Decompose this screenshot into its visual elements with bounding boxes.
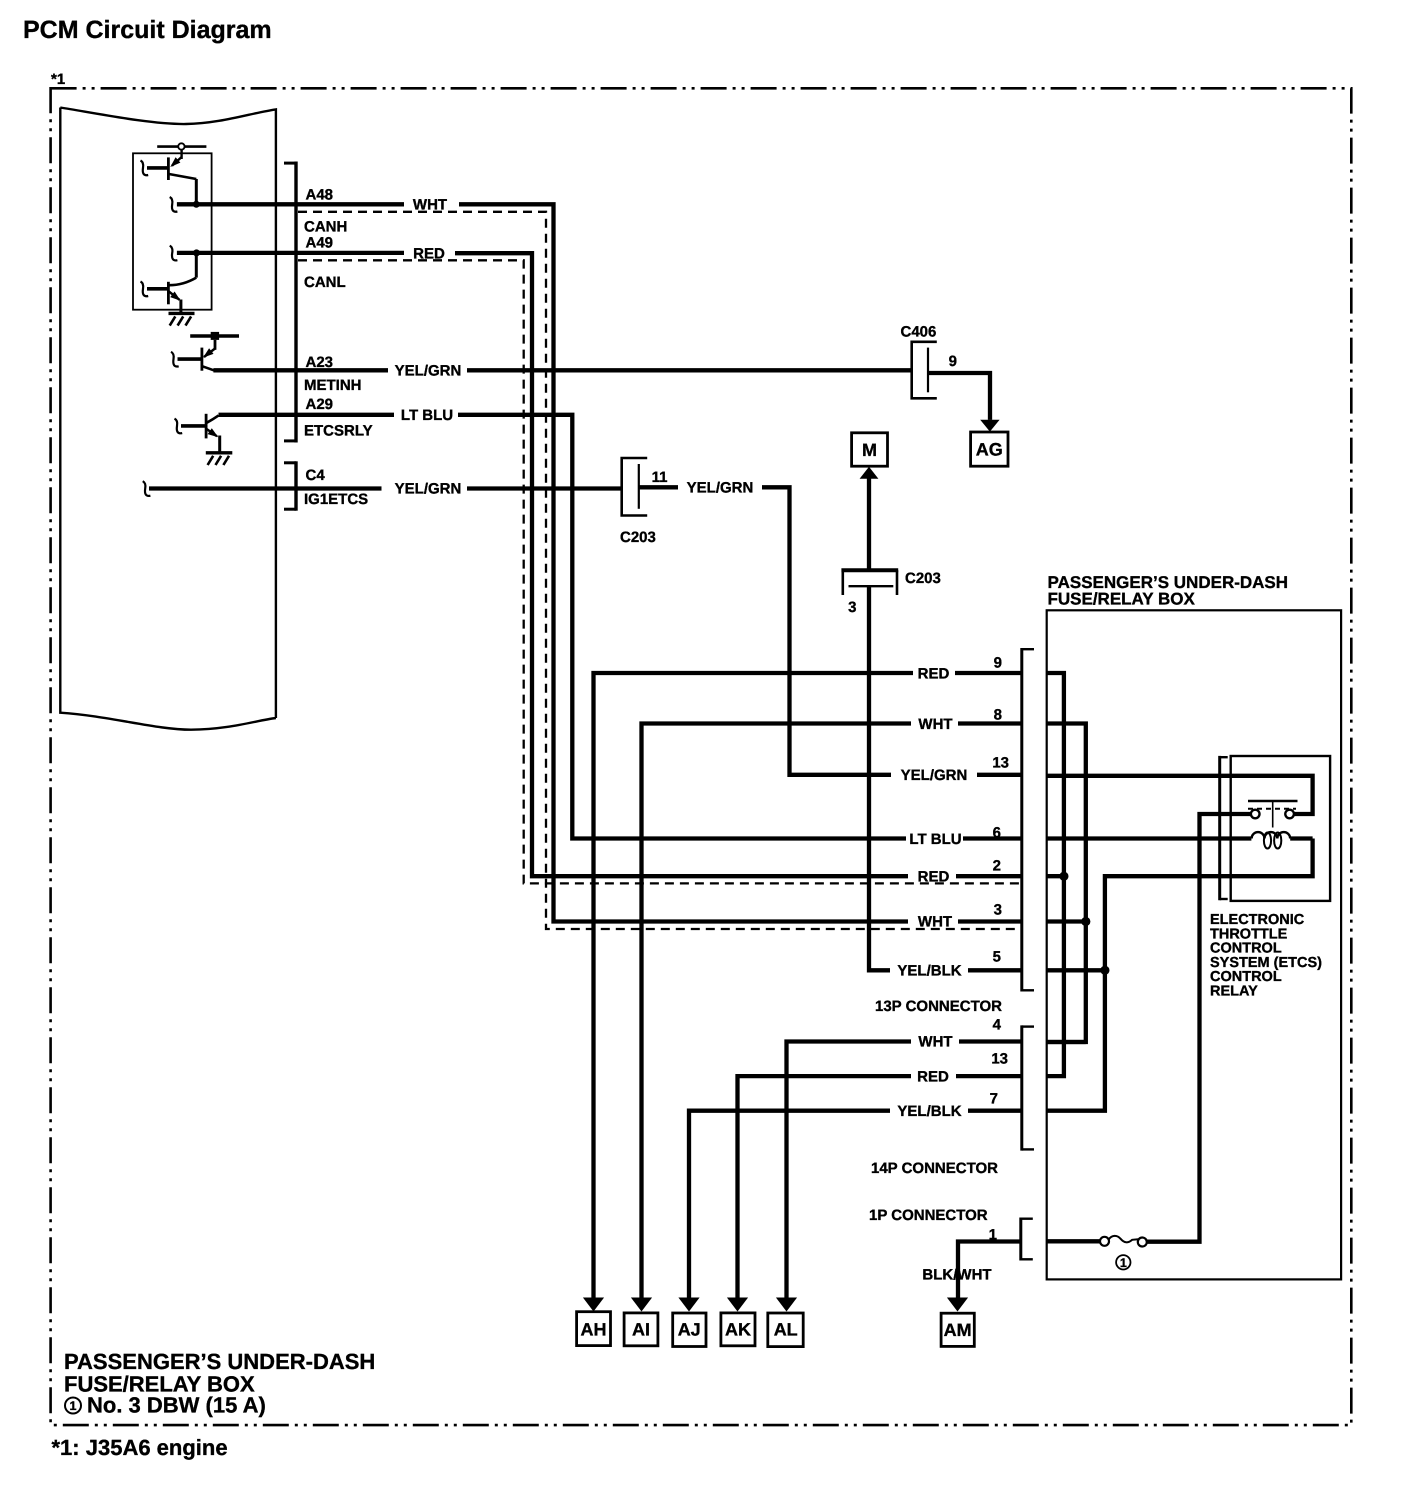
relay link bar to coil: [1272, 801, 1274, 828]
wire row6 LT BLU right segment: [963, 836, 1022, 840]
fusebox row2 stub: [1047, 874, 1064, 878]
svg-text:6: 6: [993, 825, 1001, 842]
wire row5 right segment: [968, 968, 1022, 972]
hook at A49 wire start: [170, 246, 178, 261]
wire C4 YEL/GRN segment a: [149, 486, 382, 490]
svg-text:RELAY: RELAY: [1210, 984, 1258, 1000]
junction dot row2/vert1: [1059, 872, 1068, 881]
circled 1 fuse id: [1116, 1255, 1130, 1270]
svg-text:AH: AH: [581, 1320, 607, 1340]
wire M vertical upper: [867, 479, 871, 569]
svg-text:METINH: METINH: [304, 377, 362, 394]
junction dot row3/vert2: [1081, 917, 1090, 926]
motor box M: [852, 433, 888, 466]
fusebox row5 stub: [1047, 968, 1105, 972]
fusebox 14P row4 stub: [1047, 1040, 1086, 1044]
svg-text:3: 3: [848, 599, 856, 616]
svg-text:ETCSRLY: ETCSRLY: [304, 423, 373, 440]
svg-text:CANH: CANH: [304, 219, 347, 236]
wire A29 LT BLU segment a: [219, 413, 395, 417]
wire YEL/GRN from C203-11 down to row 13: [762, 487, 891, 775]
svg-text:YEL/GRN: YEL/GRN: [395, 481, 462, 498]
wire 14P row4 WHT with drop to AL: [787, 1042, 912, 1298]
wire row13 right segment: [977, 773, 1022, 777]
connector C203 pin 11 symbol: [622, 458, 648, 516]
svg-text:1: 1: [70, 1399, 77, 1413]
fusebox row13 wire into relay to switch contact: [1047, 776, 1313, 814]
svg-text:WHT: WHT: [918, 1034, 952, 1051]
svg-text:YEL/GRN: YEL/GRN: [901, 767, 968, 784]
arrow into AH: [583, 1298, 604, 1312]
svg-text:C203: C203: [905, 570, 941, 587]
terminal box AI: [624, 1313, 658, 1346]
ground under Q5: [206, 453, 233, 465]
twisted pair dash for RED: [298, 260, 1022, 883]
wire 1P pin1 to BLK/WHT drop: [958, 1242, 1021, 1298]
svg-text:AG: AG: [976, 440, 1003, 460]
relay coil right lead: [1290, 836, 1312, 840]
wire row3 WHT right segment: [958, 919, 1022, 923]
relay coil return / vert3 to 14P-7: [1047, 839, 1313, 1111]
svg-text:13: 13: [991, 1051, 1008, 1068]
node junction on A48 wire: [193, 201, 200, 208]
svg-text:13: 13: [992, 755, 1009, 772]
svg-text:LT BLU: LT BLU: [401, 407, 453, 424]
connector bracket A48-A29 group: [284, 162, 296, 443]
svg-text:A48: A48: [306, 187, 334, 204]
svg-text:No. 3 DBW (15 A): No. 3 DBW (15 A): [87, 1393, 266, 1418]
fusebox wire row9 to 14P-13 via vertical: [1047, 673, 1064, 1076]
svg-text:YEL/BLK: YEL/BLK: [897, 1103, 961, 1120]
terminal box AH: [577, 1312, 611, 1346]
wire A48 WHT segment b down to row 3: [459, 204, 908, 921]
svg-text:C406: C406: [901, 324, 937, 341]
svg-text:*1: *1: [51, 71, 65, 88]
svg-text:YEL/GRN: YEL/GRN: [687, 480, 754, 497]
hook at A48 wire start: [170, 197, 178, 212]
svg-text:WHT: WHT: [918, 716, 952, 733]
svg-text:AK: AK: [725, 1320, 751, 1340]
arrow into AM: [947, 1298, 968, 1312]
fusebox row3 stub: [1047, 919, 1086, 923]
relay switch dashed link: [1248, 808, 1296, 810]
wire 14P row7 YEL/BLK with drop to AJ: [689, 1111, 890, 1298]
fuse symbol: [1100, 1236, 1147, 1247]
svg-text:1P CONNECTOR: 1P CONNECTOR: [869, 1207, 988, 1224]
arrow into AJ: [678, 1298, 699, 1312]
svg-text:FUSE/RELAY BOX: FUSE/RELAY BOX: [1048, 590, 1196, 609]
wire 14P row13 RED with drop to AK: [738, 1076, 912, 1298]
1P connector bracket: [1021, 1218, 1033, 1261]
fusebox row6 wire to relay coil: [1047, 836, 1252, 840]
wire A49 RED segment b down to row 2: [455, 253, 908, 876]
twisted pair dash for WHT: [298, 212, 1022, 929]
13P connector bracket: [1022, 648, 1034, 992]
svg-text:LT BLU: LT BLU: [909, 831, 961, 848]
svg-text:2: 2: [993, 858, 1001, 875]
hook at C4 wire end: [143, 481, 151, 496]
svg-text:BLK/WHT: BLK/WHT: [922, 1267, 991, 1284]
wire A48 WHT segment a: [177, 202, 404, 206]
wire A29 LT BLU segment b down to row 6: [458, 415, 906, 839]
arrow into AI: [631, 1298, 652, 1312]
svg-text:CANL: CANL: [304, 274, 346, 291]
svg-text:AM: AM: [944, 1320, 972, 1340]
fuse/relay box: [1047, 610, 1341, 1279]
connector C203 pin 3 symbol (horizontal): [841, 570, 898, 595]
wire row2 RED right segment: [956, 874, 1022, 878]
relay switch output down to fuse: [1147, 814, 1251, 1242]
connector bracket C4 group: [284, 461, 296, 510]
junction dot row5/vert3: [1100, 966, 1109, 975]
label ELECTRONIC THROTTLE CONTROL SYSTEM (ETCS) CONTROL RELAY: [1210, 912, 1322, 1000]
wire A23 YEL/GRN segment b to C406: [467, 368, 912, 372]
svg-text:M: M: [862, 440, 877, 460]
svg-text:PASSENGER’S UNDER-DASH: PASSENGER’S UNDER-DASH: [64, 1349, 375, 1374]
14P connector bracket: [1022, 1025, 1034, 1150]
terminal box AK: [721, 1313, 755, 1346]
svg-text:RED: RED: [917, 1069, 949, 1086]
svg-text:4: 4: [993, 1017, 1002, 1034]
transistor assembly box: [133, 153, 212, 309]
arrow into M: [860, 467, 879, 479]
svg-text:A29: A29: [306, 396, 334, 413]
svg-text:14P CONNECTOR: 14P CONNECTOR: [871, 1160, 998, 1177]
fusebox wire row8 to 14P-4 via vertical: [1047, 724, 1086, 1043]
svg-text:8: 8: [994, 707, 1002, 724]
svg-text:RED: RED: [918, 666, 950, 683]
wire A49 RED segment a: [177, 251, 404, 255]
terminal box AG: [971, 432, 1008, 466]
relay switch bar: [1248, 800, 1298, 803]
svg-text:C203: C203: [620, 529, 656, 546]
svg-text:11: 11: [652, 469, 668, 486]
svg-text:AJ: AJ: [678, 1320, 701, 1340]
svg-text:A49: A49: [306, 235, 334, 252]
svg-text:7: 7: [990, 1091, 998, 1108]
connector C406 symbol: [912, 342, 937, 399]
wire YEL/GRN from C203-11 segment a: [639, 485, 678, 489]
relay switch contact right: [1285, 810, 1294, 819]
relay switch contact left: [1251, 810, 1260, 819]
wire C4 YEL/GRN segment b to C203: [467, 486, 622, 490]
svg-text:YEL/BLK: YEL/BLK: [897, 963, 961, 980]
wire from C406 pin 9 to AG: [928, 373, 990, 420]
svg-text:*1: J35A6 engine: *1: J35A6 engine: [52, 1435, 228, 1460]
terminal box AL: [768, 1313, 803, 1347]
transistor Q3 (NPN, CAN driver): [141, 282, 181, 314]
transistor Q5 (NPN, ETCSRLY): [175, 414, 220, 453]
node junction on A49 wire: [193, 249, 200, 256]
relay ETCS box: [1231, 756, 1330, 901]
arrow into AG: [980, 420, 999, 432]
relay coil: [1252, 832, 1291, 848]
svg-text:3: 3: [994, 902, 1002, 919]
svg-text:9: 9: [994, 655, 1002, 672]
transistor Q1 (PNP, CAN driver): [141, 150, 197, 205]
circled 1 + fuse name: [65, 1393, 266, 1418]
wire A23 YEL/GRN segment a: [213, 368, 388, 372]
relay connector bracket: [1220, 756, 1228, 900]
arrow into AK: [727, 1298, 748, 1312]
svg-text:1: 1: [1120, 1256, 1127, 1270]
wire row8 WHT with drop to AI: [642, 724, 912, 1298]
svg-text:PCM Circuit Diagram: PCM Circuit Diagram: [23, 16, 272, 44]
transistor Q1 supply line: [157, 145, 206, 148]
svg-text:AI: AI: [632, 1320, 650, 1340]
transistor Q4 supply line with solid square: [190, 334, 239, 337]
fusebox fuse line left: [1047, 1239, 1101, 1243]
wire row9 RED with drop to AH: [594, 673, 914, 1298]
arrow into AL: [776, 1298, 797, 1312]
svg-text:AL: AL: [774, 1320, 798, 1340]
svg-text:C4: C4: [306, 467, 326, 484]
svg-text:5: 5: [993, 949, 1001, 966]
svg-text:IG1ETCS: IG1ETCS: [304, 491, 368, 508]
PCM block outline: [60, 108, 276, 730]
link from A49 node down to Q3: [195, 254, 198, 278]
ground under Q3: [169, 313, 195, 325]
transistor Q4 (PNP, METINH): [171, 340, 215, 371]
terminal box AJ: [673, 1313, 706, 1347]
terminal box AM: [941, 1313, 974, 1346]
wire M vertical lower to row 5: [869, 586, 890, 970]
svg-text:YEL/GRN: YEL/GRN: [395, 363, 462, 380]
svg-text:13P CONNECTOR: 13P CONNECTOR: [875, 998, 1002, 1015]
svg-text:9: 9: [949, 353, 957, 370]
